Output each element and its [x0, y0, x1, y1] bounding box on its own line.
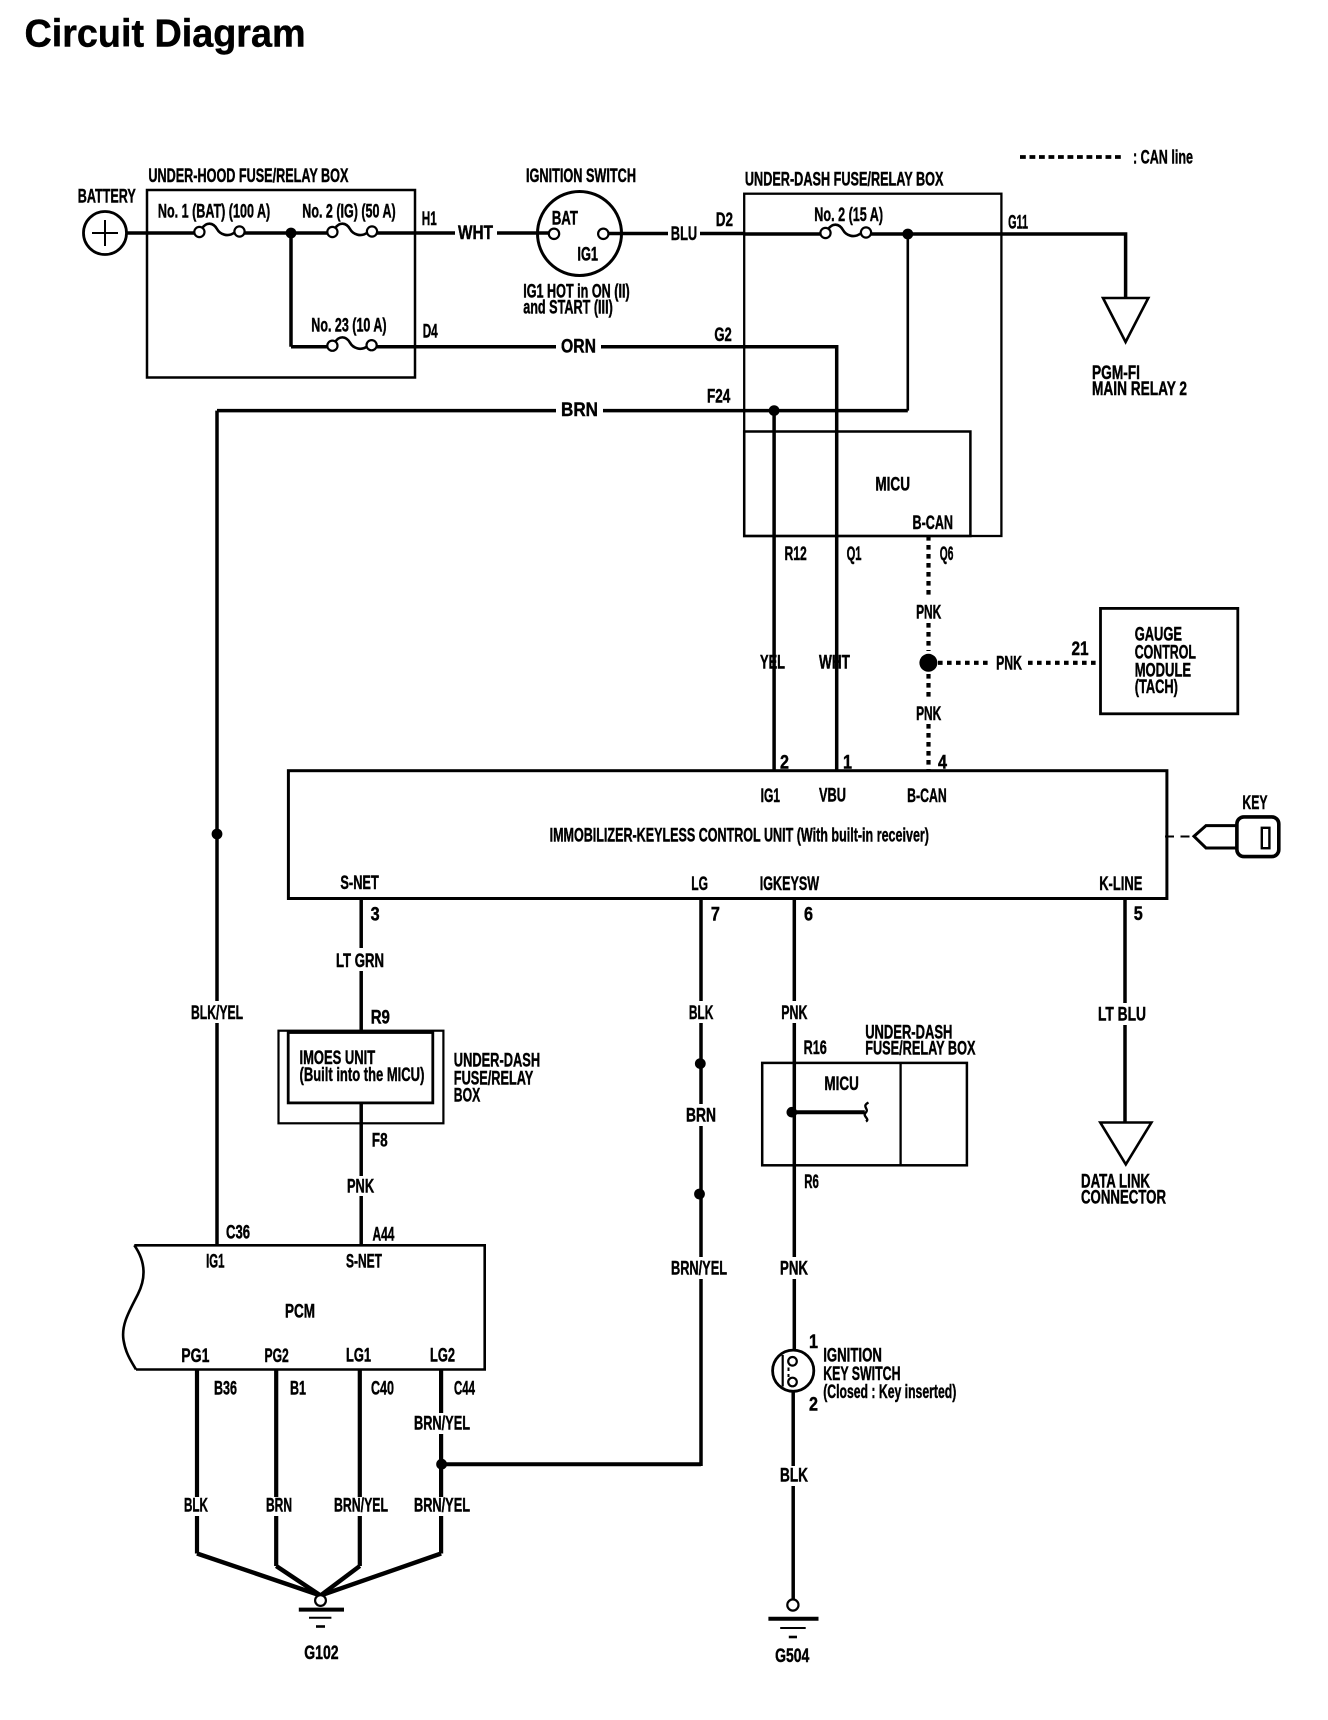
svg-text:IG1: IG1	[761, 786, 781, 807]
fuse No.23 (10 A)	[311, 316, 386, 351]
svg-text:PNK: PNK	[996, 653, 1022, 674]
svg-text:R16: R16	[804, 1038, 827, 1059]
svg-text:UNDER-DASH FUSE/RELAY BOX: UNDER-DASH FUSE/RELAY BOX	[745, 170, 944, 191]
svg-text:21: 21	[1072, 639, 1089, 660]
svg-text:KEY: KEY	[1242, 793, 1267, 814]
wire LG1 BRN/YEL to ground	[321, 1370, 389, 1596]
svg-text:PNK: PNK	[916, 704, 941, 725]
svg-text:VBU: VBU	[819, 786, 846, 807]
ignition switch	[523, 166, 636, 319]
wire ignition to under-dash box, BLU	[609, 224, 744, 245]
svg-text:F8: F8	[372, 1131, 388, 1152]
wire R12 YEL down to immobilizer pin 2	[760, 411, 785, 771]
svg-text:2: 2	[809, 1395, 818, 1416]
svg-text:MAIN RELAY 2: MAIN RELAY 2	[1092, 379, 1187, 400]
svg-text:5: 5	[1134, 904, 1143, 925]
svg-text:: CAN line: : CAN line	[1133, 148, 1193, 169]
svg-text:BRN: BRN	[686, 1106, 716, 1127]
svg-text:LG: LG	[691, 874, 708, 895]
wire key switch BLK to ground	[780, 1391, 808, 1599]
MICU switch arrow	[792, 1103, 869, 1122]
svg-text:B1: B1	[290, 1379, 306, 1400]
svg-text:S-NET: S-NET	[340, 873, 379, 894]
svg-text:BLK: BLK	[184, 1496, 208, 1517]
svg-text:WHT: WHT	[458, 223, 493, 244]
svg-text:G2: G2	[714, 325, 731, 346]
svg-text:MICU: MICU	[824, 1074, 858, 1095]
svg-text:BRN: BRN	[266, 1496, 292, 1517]
node fuse output junction	[902, 229, 913, 240]
wire PG2 BRN to ground	[266, 1370, 321, 1596]
svg-text:6: 6	[804, 905, 813, 926]
fuse No.1 (BAT) (100 A)	[158, 202, 270, 238]
svg-text:LT GRN: LT GRN	[336, 951, 384, 972]
svg-text:BRN/YEL: BRN/YEL	[671, 1259, 727, 1280]
node junction under-hood	[286, 228, 297, 239]
svg-text:PNK: PNK	[916, 602, 941, 623]
svg-text:S-NET: S-NET	[346, 1252, 382, 1273]
svg-text:PG2: PG2	[265, 1346, 289, 1367]
pin G11, wire to PGM-FI relay	[1001, 213, 1125, 298]
svg-text:IMMOBILIZER-KEYLESS CONTROL UN: IMMOBILIZER-KEYLESS CONTROL UNIT (With b…	[550, 826, 929, 847]
svg-text:G504: G504	[775, 1646, 810, 1667]
svg-text:BLK: BLK	[780, 1466, 808, 1487]
wire through box2	[793, 1063, 797, 1165]
svg-text:H1: H1	[422, 209, 437, 230]
gauge control module (tach)	[1101, 608, 1238, 713]
svg-text:LT BLU: LT BLU	[1098, 1005, 1146, 1026]
node MICU junction	[787, 1107, 798, 1118]
svg-text:PNK: PNK	[347, 1176, 374, 1197]
svg-text:G102: G102	[304, 1643, 338, 1664]
node splice on BLK/YEL	[212, 829, 223, 840]
wire battery to under-hood box	[127, 231, 195, 235]
PGM-FI main relay 2 triangle	[1092, 298, 1187, 400]
wire branch down to fuse No.23	[289, 233, 293, 347]
svg-text:WHT: WHT	[819, 653, 850, 674]
svg-text:MICU: MICU	[875, 475, 910, 496]
node CAN junction	[919, 654, 937, 672]
svg-text:and START (III): and START (III)	[523, 298, 613, 319]
svg-text:BRN/YEL: BRN/YEL	[414, 1496, 470, 1517]
svg-text:No. 2 (IG) (50 A): No. 2 (IG) (50 A)	[302, 202, 395, 223]
svg-text:PG1: PG1	[181, 1346, 209, 1367]
wire LG2 BRN/YEL to ground	[321, 1370, 471, 1596]
svg-text:3: 3	[371, 905, 380, 926]
svg-text:BRN/YEL: BRN/YEL	[334, 1496, 388, 1517]
wire PG1 BLK to ground	[184, 1370, 321, 1596]
svg-text:K-LINE: K-LINE	[1099, 874, 1142, 895]
wire R6 PNK to key switch	[780, 1165, 808, 1350]
node splice LG lower	[694, 1189, 705, 1200]
svg-text:No. 2 (15 A): No. 2 (15 A)	[814, 205, 883, 226]
wire K-LINE LT BLU down	[1098, 899, 1146, 1123]
svg-text:BATTERY: BATTERY	[78, 187, 136, 208]
MICU box	[744, 432, 970, 537]
wire S-NET down LT GRN	[336, 899, 384, 1031]
wire D4 to G2, ORN	[376, 337, 744, 358]
CAN line legend	[1020, 148, 1193, 169]
svg-text:B-CAN: B-CAN	[907, 786, 947, 807]
svg-text:BAT: BAT	[552, 209, 579, 230]
wire IGKEYSW column PNK	[781, 899, 807, 1063]
svg-text:No. 1 (BAT) (100 A): No. 1 (BAT) (100 A)	[158, 202, 270, 223]
svg-text:R12: R12	[785, 544, 807, 565]
node F24 junction	[769, 405, 780, 416]
wire dashed PNK to gauge module	[938, 639, 1101, 674]
svg-text:IGNITION SWITCH: IGNITION SWITCH	[526, 166, 636, 187]
svg-text:LG2: LG2	[430, 1346, 455, 1367]
svg-text:ORN: ORN	[561, 337, 596, 358]
svg-text:BOX: BOX	[454, 1086, 481, 1107]
svg-text:FUSE/RELAY BOX: FUSE/RELAY BOX	[865, 1038, 976, 1059]
wire BRN from battery column to F24	[217, 400, 908, 421]
wire fuse1 to fuse2 with junction	[245, 231, 328, 235]
svg-text:PNK: PNK	[781, 1003, 807, 1024]
svg-text:IG1: IG1	[206, 1251, 225, 1272]
svg-text:1: 1	[809, 1332, 818, 1353]
wire LG column down	[442, 899, 728, 1465]
svg-text:PCM: PCM	[285, 1302, 315, 1323]
svg-text:B36: B36	[214, 1379, 237, 1400]
svg-text:YEL: YEL	[760, 653, 785, 674]
immobilizer-keyless control unit U1	[288, 771, 1167, 899]
battery	[78, 187, 136, 255]
svg-text:No. 23 (10 A): No. 23 (10 A)	[311, 316, 386, 337]
svg-text:(TACH): (TACH)	[1135, 677, 1178, 698]
svg-text:(Closed : Key inserted): (Closed : Key inserted)	[823, 1382, 956, 1403]
svg-text:C36: C36	[226, 1223, 250, 1244]
IMOES unit box	[279, 1031, 541, 1124]
under-hood fuse/relay box	[147, 166, 415, 378]
svg-text:CONNECTOR: CONNECTOR	[1081, 1188, 1166, 1209]
svg-text:D4: D4	[423, 322, 438, 343]
svg-text:Q6: Q6	[940, 544, 954, 565]
svg-text:C40: C40	[371, 1379, 394, 1400]
svg-text:C44: C44	[454, 1379, 475, 1400]
svg-text:BLK/YEL: BLK/YEL	[191, 1003, 243, 1024]
svg-text:UNDER-HOOD FUSE/RELAY BOX: UNDER-HOOD FUSE/RELAY BOX	[148, 166, 348, 187]
svg-text:F24: F24	[707, 387, 731, 408]
wire Q1 WHT down to immobilizer pin 1	[819, 536, 850, 771]
key symbol	[1165, 793, 1279, 857]
svg-text:PNK: PNK	[780, 1259, 808, 1280]
ground G504	[768, 1599, 818, 1667]
svg-text:R6: R6	[804, 1172, 819, 1193]
ground G102	[299, 1595, 344, 1664]
svg-text:BRN/YEL: BRN/YEL	[414, 1414, 470, 1435]
wire IMOES to PCM, F8 PNK A44	[347, 1103, 395, 1246]
node junction C44 column	[436, 1459, 447, 1470]
under-dash fuse/relay box	[744, 170, 1001, 537]
svg-text:Circuit Diagram: Circuit Diagram	[25, 13, 306, 56]
wire B-CAN dashed down (Q6)	[916, 536, 941, 771]
svg-text:D2: D2	[716, 210, 733, 231]
wire H1 to ignition switch, WHT	[377, 223, 549, 244]
ignition key switch	[773, 1332, 957, 1416]
PCM box	[123, 1245, 485, 1369]
svg-text:Q1: Q1	[847, 544, 862, 565]
fuse No.2 (IG) (50 A)	[302, 202, 395, 238]
svg-text:BRN: BRN	[561, 400, 598, 421]
svg-text:IG1: IG1	[577, 245, 598, 266]
svg-text:B-CAN: B-CAN	[913, 513, 954, 534]
svg-text:A44: A44	[373, 1224, 395, 1245]
svg-text:LG1: LG1	[346, 1346, 371, 1367]
under-dash fuse/relay box 2	[762, 1022, 976, 1165]
data link connector triangle	[1081, 1123, 1166, 1209]
wire BLK/YEL left column down to PCM	[191, 411, 243, 1246]
svg-text:G11: G11	[1008, 213, 1028, 234]
svg-text:BLU: BLU	[671, 224, 697, 245]
svg-text:IGKEYSW: IGKEYSW	[760, 874, 819, 895]
fuse No.2 (15 A)	[744, 205, 1001, 238]
wire BRN/YEL link to LG column	[442, 1462, 701, 1466]
svg-text:(Built into the MICU): (Built into the MICU)	[300, 1065, 425, 1086]
svg-text:R9: R9	[371, 1008, 390, 1029]
wire junction down to F24 line	[906, 234, 909, 411]
node splice LG upper	[695, 1058, 706, 1069]
svg-text:BLK: BLK	[689, 1003, 714, 1024]
wire G2 inside box down (Q1 column)	[744, 347, 837, 536]
svg-text:7: 7	[711, 905, 720, 926]
